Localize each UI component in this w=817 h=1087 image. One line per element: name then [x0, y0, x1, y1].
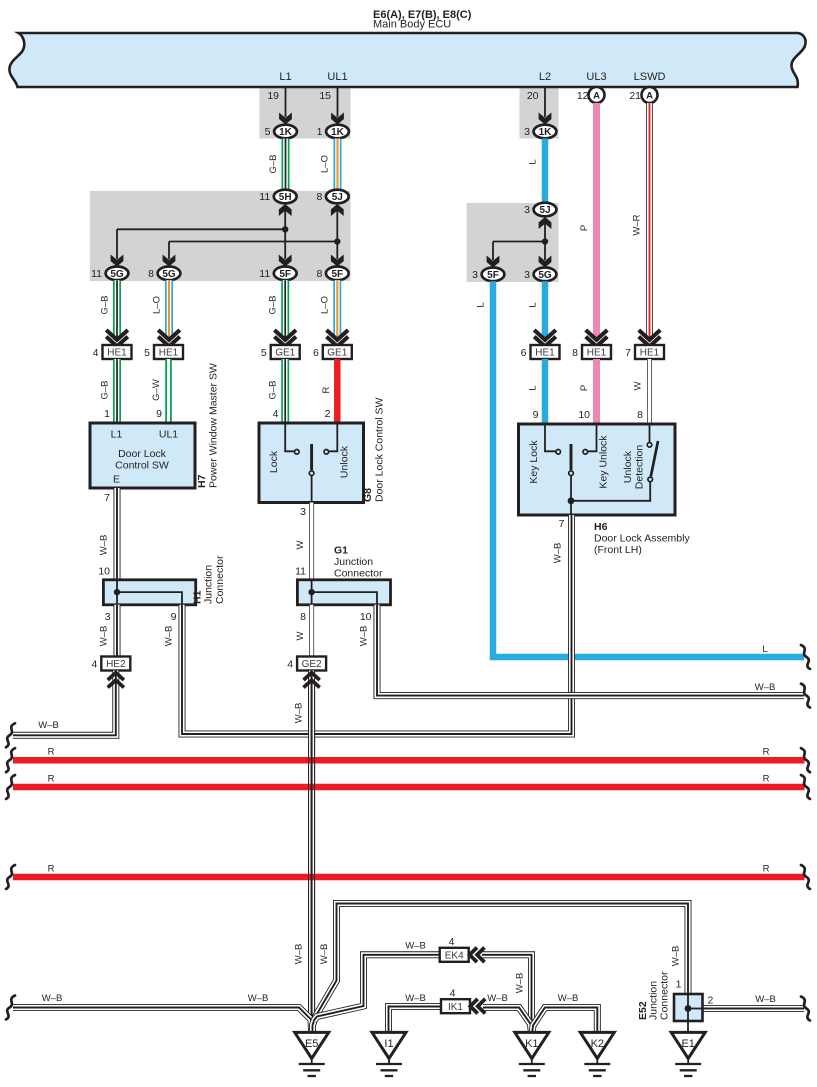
- wire R power line 2: [13, 784, 805, 791]
- svg-text:5J: 5J: [539, 205, 550, 216]
- relay H6 Door Lock Assembly box: [519, 424, 676, 515]
- wire GE2 to ground E5: [308, 671, 315, 1033]
- wire L-O to HE1 pin 5: [165, 280, 173, 337]
- wire W-R to HE1 pin 7: [646, 103, 653, 337]
- wire G-B to GE1 pin 5: [281, 280, 289, 337]
- G8 lock contact wiring: [285, 423, 294, 451]
- svg-text:5G: 5G: [110, 269, 124, 280]
- svg-text:Main Body ECU: Main Body ECU: [373, 19, 451, 31]
- wire W-B HE2 to left edge: [13, 671, 116, 736]
- svg-text:9: 9: [171, 611, 177, 623]
- svg-text:W–B: W–B: [558, 993, 579, 1004]
- wire L solid blue from 5F pin 3 to right edge: [493, 281, 804, 657]
- svg-text:1: 1: [104, 408, 110, 420]
- wire W-B EK4 to ground E5: [314, 955, 441, 1021]
- svg-text:L: L: [762, 644, 767, 655]
- wire L-O (UL1): [334, 139, 342, 191]
- svg-text:W–R: W–R: [632, 214, 643, 235]
- svg-text:R: R: [321, 386, 332, 393]
- svg-text:G–B: G–B: [100, 380, 111, 399]
- svg-text:W–B: W–B: [294, 944, 305, 965]
- svg-text:HE1: HE1: [535, 348, 555, 359]
- svg-text:W–B: W–B: [42, 993, 63, 1004]
- svg-text:Door Lock: Door Lock: [118, 448, 167, 460]
- svg-text:5F: 5F: [279, 269, 291, 280]
- arrow into 5J: [331, 204, 344, 216]
- svg-text:R: R: [48, 863, 55, 874]
- svg-text:Junction: Junction: [334, 556, 373, 568]
- G8 switch pole: [310, 444, 313, 470]
- wire W-B EK4 to ground K1: [482, 955, 532, 1033]
- wire 5J to 5F branch: [336, 210, 338, 259]
- svg-text:G–B: G–B: [268, 380, 279, 399]
- svg-text:A: A: [593, 91, 600, 102]
- double chevron into connector: [106, 330, 128, 340]
- svg-text:6: 6: [313, 347, 319, 359]
- svg-text:LSWD: LSWD: [634, 71, 666, 83]
- wire L1 pin 19: [285, 88, 287, 117]
- G8 unlock contact wiring: [329, 423, 337, 451]
- wire E52 to ground E1: [687, 995, 689, 1032]
- svg-text:8: 8: [300, 611, 306, 623]
- svg-text:W–B: W–B: [487, 993, 508, 1004]
- svg-text:IK1: IK1: [448, 1002, 463, 1013]
- H6 unlock detection switch: [649, 424, 651, 442]
- wire W-B K2 to ground K1: [532, 1008, 597, 1033]
- connector IK1 pin 4: [441, 999, 470, 1013]
- svg-text:L2: L2: [539, 71, 551, 83]
- svg-text:W–B: W–B: [553, 543, 564, 564]
- svg-text:8: 8: [637, 409, 643, 421]
- torn end right (R 1): [801, 748, 810, 772]
- double chevron into connector: [586, 330, 608, 340]
- svg-text:R: R: [48, 773, 55, 784]
- H6 switch pole: [570, 444, 573, 470]
- svg-text:P: P: [579, 385, 590, 391]
- svg-text:10: 10: [578, 409, 590, 421]
- svg-text:1: 1: [676, 979, 682, 991]
- wire G-B (L1): [282, 139, 290, 191]
- torn end left (W-B HE2): [6, 723, 15, 747]
- svg-text:Door Lock Assembly: Door Lock Assembly: [594, 532, 690, 544]
- ground I1: [372, 1032, 406, 1058]
- svg-text:Junction: Junction: [203, 565, 215, 604]
- svg-text:R: R: [763, 863, 770, 874]
- ground E1: [671, 1032, 705, 1058]
- svg-text:9: 9: [533, 409, 539, 421]
- ground K2: [580, 1032, 614, 1058]
- svg-text:L: L: [528, 159, 539, 164]
- svg-text:5: 5: [265, 126, 271, 138]
- ring terminal A pin 21 (LSWD): [642, 87, 658, 103]
- svg-text:L1: L1: [279, 71, 291, 83]
- torn end right (W-B): [801, 684, 810, 708]
- svg-text:HE1: HE1: [640, 348, 660, 359]
- svg-text:W–B: W–B: [164, 626, 175, 647]
- switch G8 box: [259, 423, 364, 503]
- svg-text:W–B: W–B: [294, 703, 305, 724]
- double chevron into connector: [158, 330, 180, 340]
- svg-text:GE2: GE2: [302, 659, 322, 670]
- svg-text:G–W: G–W: [151, 379, 162, 401]
- double chevron into connector: [534, 330, 556, 340]
- torn end left (R 1): [6, 748, 15, 772]
- wire G-B to H7 pin 1: [113, 359, 121, 423]
- svg-text:G–B: G–B: [268, 154, 279, 173]
- svg-text:G–B: G–B: [268, 295, 279, 314]
- svg-text:W–B: W–B: [319, 944, 330, 965]
- svg-text:H7: H7: [196, 474, 208, 488]
- svg-text:P: P: [579, 225, 590, 231]
- wire G-B to HE1 pin 4: [113, 280, 121, 337]
- svg-text:L1: L1: [111, 429, 123, 441]
- svg-text:W: W: [295, 540, 306, 549]
- H6 key lock contact wiring: [545, 424, 556, 451]
- svg-text:3: 3: [105, 611, 111, 623]
- svg-text:7: 7: [104, 492, 110, 504]
- svg-text:5: 5: [144, 347, 150, 359]
- wire P to H6 pin 10: [593, 359, 600, 424]
- svg-text:11: 11: [259, 191, 270, 203]
- svg-text:5F: 5F: [487, 270, 499, 281]
- svg-text:(Front LH): (Front LH): [594, 544, 642, 556]
- junction node at 5J branch: [334, 238, 340, 244]
- svg-text:6: 6: [521, 347, 527, 359]
- svg-text:L–O: L–O: [152, 296, 163, 314]
- arrow into 5F pin 11: [279, 255, 292, 267]
- connector HE1 pin 7: [635, 345, 664, 359]
- svg-text:UL3: UL3: [586, 71, 606, 83]
- svg-text:4: 4: [273, 408, 279, 420]
- svg-text:Unlock: Unlock: [622, 450, 634, 483]
- svg-text:Connector: Connector: [214, 555, 226, 604]
- connector shading block 1K (right): [520, 87, 559, 139]
- svg-text:Key Lock: Key Lock: [528, 440, 540, 484]
- svg-text:5F: 5F: [331, 269, 343, 280]
- arrow into 5F pin 8: [331, 255, 344, 267]
- wire 5J to 5G branch (right): [544, 223, 546, 260]
- svg-text:3: 3: [524, 126, 530, 138]
- svg-text:11: 11: [259, 268, 270, 280]
- double chevron into connector: [327, 330, 349, 340]
- wire L2 pin 20: [544, 88, 546, 117]
- svg-text:7: 7: [559, 518, 565, 530]
- switch H7 Door Lock Control SW box: [90, 423, 195, 488]
- junction node E52: [685, 1005, 692, 1012]
- svg-text:GE1: GE1: [275, 348, 295, 359]
- svg-text:W: W: [633, 381, 644, 390]
- arrow into 5H: [279, 204, 292, 216]
- wire L to HE1 pin 6: [542, 281, 549, 337]
- svg-text:UL1: UL1: [327, 71, 347, 83]
- svg-text:Power Window Master SW: Power Window Master SW: [208, 363, 220, 488]
- svg-text:W–B: W–B: [359, 626, 370, 647]
- wire GE2 black lines over red: [308, 671, 310, 1033]
- svg-text:W–B: W–B: [405, 941, 426, 952]
- svg-text:G1: G1: [334, 545, 348, 557]
- torn end right (L): [801, 645, 810, 669]
- connector shading block 5H/5J/5G/5F: [90, 191, 351, 281]
- svg-text:5G: 5G: [162, 269, 176, 280]
- svg-text:K2: K2: [591, 1038, 604, 1050]
- svg-text:4: 4: [450, 988, 456, 1000]
- svg-text:G8: G8: [362, 488, 374, 502]
- svg-text:Control SW: Control SW: [115, 460, 169, 472]
- svg-text:L–O: L–O: [320, 296, 331, 314]
- connector 5G pin 11: [106, 267, 129, 281]
- connector 1K pin 5: [274, 125, 297, 139]
- svg-text:5G: 5G: [538, 270, 552, 281]
- wire W G8 to G1: [309, 503, 314, 580]
- arrow into 5G pin 11: [111, 255, 124, 267]
- svg-text:L: L: [528, 302, 539, 307]
- svg-text:21: 21: [629, 90, 641, 102]
- svg-text:1: 1: [317, 126, 323, 138]
- connector HE1 pin 4: [103, 345, 132, 359]
- svg-text:1K: 1K: [331, 127, 345, 138]
- connector 5G pin 8: [158, 267, 181, 281]
- svg-text:8: 8: [316, 268, 322, 280]
- svg-text:11: 11: [295, 566, 306, 578]
- svg-text:1K: 1K: [279, 127, 293, 138]
- wire P to HE1 pin 8: [593, 103, 600, 337]
- torn end left (R 3): [6, 865, 15, 889]
- svg-text:15: 15: [319, 90, 331, 102]
- arrow into 5G pin 8: [163, 255, 176, 267]
- svg-text:K1: K1: [525, 1038, 538, 1050]
- connector 5F pin 8: [326, 267, 349, 281]
- junction node H1: [114, 589, 120, 595]
- connector 5J pin 3: [534, 203, 557, 217]
- svg-text:3: 3: [524, 204, 530, 216]
- connector 5H pin 11: [274, 190, 297, 204]
- svg-text:W–B: W–B: [405, 993, 426, 1004]
- wire W-B H7 to H1: [114, 488, 121, 580]
- wire G-B to G8 pin 4: [281, 359, 289, 423]
- svg-text:3: 3: [472, 269, 478, 281]
- svg-text:W–B: W–B: [38, 720, 59, 731]
- svg-text:11: 11: [91, 268, 102, 280]
- svg-text:L: L: [528, 385, 539, 390]
- connector 1K pin 1: [326, 125, 349, 139]
- svg-text:Detection: Detection: [634, 445, 646, 490]
- svg-text:G–B: G–B: [100, 295, 111, 314]
- svg-text:Door Lock Control SW: Door Lock Control SW: [374, 397, 386, 502]
- svg-text:W–B: W–B: [248, 993, 269, 1004]
- connector 5F pin 11: [274, 267, 297, 281]
- torn end right (R 3): [801, 865, 810, 889]
- svg-text:W–B: W–B: [99, 535, 110, 556]
- connector HE1 pin 5: [154, 345, 183, 359]
- svg-text:Unlock: Unlock: [339, 445, 351, 478]
- connector 1K pin 3: [534, 125, 557, 139]
- svg-text:Connector: Connector: [334, 568, 383, 580]
- svg-text:L–O: L–O: [320, 155, 331, 173]
- ring terminal A pin 12 (UL3): [589, 87, 605, 103]
- connector GE2 pin 4: [297, 657, 326, 671]
- svg-text:W–B: W–B: [755, 682, 776, 693]
- connector HE1 pin 8: [582, 345, 611, 359]
- svg-text:9: 9: [156, 408, 162, 420]
- wire W-B E5 to E52 pin 1: [313, 904, 689, 1033]
- svg-text:4: 4: [91, 658, 97, 670]
- svg-text:E: E: [113, 474, 120, 486]
- svg-text:2: 2: [708, 995, 714, 1007]
- wire W to H6 pin 8: [647, 359, 652, 424]
- svg-text:W: W: [295, 631, 306, 640]
- wire L solid blue (L2): [542, 139, 549, 204]
- svg-text:R: R: [763, 747, 770, 758]
- svg-text:E1: E1: [681, 1038, 694, 1050]
- svg-text:HE1: HE1: [587, 348, 607, 359]
- svg-text:HE2: HE2: [106, 659, 126, 670]
- svg-text:8: 8: [148, 268, 154, 280]
- svg-text:1K: 1K: [539, 127, 553, 138]
- ground E5: [295, 1032, 329, 1058]
- Main Body ECU band U1: [9, 33, 805, 87]
- arrow into 5G pin 3: [539, 256, 552, 268]
- svg-text:W–B: W–B: [515, 973, 526, 994]
- wire W-B left edge to ground E5: [13, 1008, 312, 1033]
- wire R power line 1: [13, 757, 805, 764]
- svg-text:HE1: HE1: [107, 348, 127, 359]
- arrow into 5J pin 3: [539, 217, 552, 229]
- svg-text:10: 10: [98, 566, 110, 578]
- svg-text:E5: E5: [305, 1038, 318, 1050]
- svg-text:H6: H6: [594, 521, 608, 533]
- torn end left (R 2): [6, 775, 15, 799]
- wire R to G8 pin 2: [334, 359, 341, 423]
- svg-text:4: 4: [93, 347, 99, 359]
- svg-text:4: 4: [449, 936, 455, 948]
- torn end left (W-B ground): [6, 996, 15, 1020]
- connector shading block 5J/5F/5G (right): [467, 203, 559, 282]
- connector shading block 1K (left): [260, 87, 351, 139]
- svg-text:Lock: Lock: [268, 450, 280, 473]
- svg-text:GE1: GE1: [327, 348, 347, 359]
- svg-text:20: 20: [527, 90, 539, 102]
- junction node at 5H branch: [282, 226, 288, 232]
- junction node H6: [568, 497, 575, 504]
- svg-text:4: 4: [287, 658, 293, 670]
- wire UL1 pin 15: [337, 88, 339, 117]
- connector 5F pin 3: [482, 268, 505, 282]
- svg-text:R: R: [48, 747, 55, 758]
- wire G-W to H7 pin 9: [165, 359, 172, 423]
- connector 5J pin 8: [326, 190, 349, 204]
- connector GE1 pin 5: [271, 345, 300, 359]
- wire L to H6 pin 9: [542, 359, 549, 424]
- svg-text:2: 2: [325, 408, 331, 420]
- svg-text:Connector: Connector: [659, 971, 671, 1020]
- svg-text:W–B: W–B: [755, 994, 776, 1005]
- junction connector E52: [674, 994, 703, 1021]
- svg-text:EK4: EK4: [445, 950, 464, 961]
- double chevron into connector: [274, 330, 296, 340]
- torn end right (W-B E52): [801, 997, 810, 1021]
- wire W-B right edge to E52 pin 2: [703, 1005, 805, 1012]
- svg-text:19: 19: [267, 90, 279, 102]
- svg-text:A: A: [646, 91, 653, 102]
- svg-text:5: 5: [261, 347, 267, 359]
- ground K1: [515, 1032, 549, 1058]
- connector 5G pin 3: [534, 268, 557, 282]
- svg-text:W–B: W–B: [99, 626, 110, 647]
- junction node right branch: [542, 238, 548, 244]
- svg-text:10: 10: [360, 611, 372, 623]
- wire W-B IK1 to ground I1: [389, 1007, 443, 1033]
- svg-text:7: 7: [625, 347, 631, 359]
- svg-text:3: 3: [300, 506, 306, 518]
- wire L-O to GE1 pin 6: [333, 280, 341, 337]
- wire 5H to 5F branch: [284, 210, 286, 259]
- svg-text:I1: I1: [384, 1038, 393, 1050]
- double chevron into connector: [639, 330, 661, 340]
- wire W-B IK1 to ground K1: [483, 1008, 531, 1033]
- svg-text:R: R: [763, 773, 770, 784]
- svg-text:8: 8: [316, 191, 322, 203]
- svg-text:5H: 5H: [279, 192, 292, 203]
- svg-text:12: 12: [577, 90, 589, 102]
- svg-text:5J: 5J: [332, 192, 343, 203]
- connector HE2 pin 4: [101, 657, 130, 671]
- svg-text:3: 3: [524, 269, 530, 281]
- svg-text:8: 8: [572, 347, 578, 359]
- svg-text:HE1: HE1: [159, 348, 179, 359]
- wire R power line 3: [13, 874, 805, 881]
- connector HE1 pin 6: [531, 345, 560, 359]
- svg-text:L: L: [476, 302, 487, 307]
- svg-text:Key Unlock: Key Unlock: [598, 435, 610, 489]
- connector GE1 pin 6: [323, 345, 352, 359]
- svg-text:UL1: UL1: [159, 429, 178, 441]
- arrow into 5F pin 3: [487, 256, 500, 268]
- junction node G1: [308, 589, 314, 595]
- H6 key unlock contact wiring: [588, 424, 597, 451]
- svg-text:W–B: W–B: [671, 946, 682, 967]
- torn end right (R 2): [801, 775, 810, 799]
- connector EK4 pin 4: [440, 948, 469, 962]
